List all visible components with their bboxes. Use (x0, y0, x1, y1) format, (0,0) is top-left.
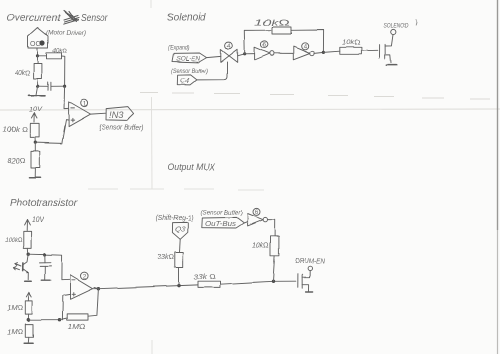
resistor 1M lower (7, 324, 33, 337)
circled 2 (81, 272, 89, 280)
svg-text:1MΩ: 1MΩ (68, 322, 86, 331)
tag IN3 output (106, 107, 134, 121)
wire C4 to gate control (197, 62, 227, 80)
svg-text:820Ω: 820Ω (7, 158, 26, 165)
wire Q3 to resistor (179, 239, 182, 252)
op-amp U2 (70, 275, 93, 299)
svg-text:Solenoid: Solenoid (167, 12, 207, 24)
wire R4 to ground (34, 168, 36, 178)
phototransistor (13, 254, 29, 279)
wire R3 to node (34, 137, 36, 142)
tag SOL-EN (172, 53, 207, 63)
wire node to inverter A (245, 53, 255, 55)
wire node down to R2 (37, 56, 39, 64)
inverter C (248, 214, 268, 226)
supply arrow 10V (25, 217, 46, 231)
ground (306, 291, 313, 293)
svg-text:(Motor Driver): (Motor Driver) (46, 30, 86, 37)
inverter A (255, 47, 274, 60)
svg-text:100k Ω: 100k Ω (3, 127, 28, 134)
wire long output bus (94, 285, 198, 289)
circled 6 (261, 41, 268, 49)
ground (30, 177, 41, 179)
resistor 10k gate (340, 40, 362, 55)
circled 4 (225, 42, 232, 50)
wire tag to inverter (244, 222, 248, 223)
node (27, 318, 30, 321)
wire node to R1 (38, 55, 47, 57)
tag OUT-BUS (202, 217, 244, 228)
resistor R4 820 (7, 151, 40, 168)
svg-text:10kΩ: 10kΩ (254, 18, 291, 28)
svg-text:(Sensor Buffer): (Sensor Buffer) (171, 68, 208, 75)
supply arrow 10V (29, 107, 43, 123)
tag OC input (28, 28, 48, 49)
node (271, 280, 274, 283)
svg-text:OC: OC (31, 41, 42, 48)
wire R2 to node (37, 79, 39, 87)
wire to U1 inverting input (64, 86, 69, 108)
node (322, 51, 325, 54)
svg-text:Sensor: Sensor (81, 12, 108, 24)
mosfet Q drum (298, 271, 310, 291)
wire junction to feedback resistor (60, 318, 68, 320)
svg-text:1MΩ: 1MΩ (7, 306, 24, 313)
wire tag to node (37, 48, 39, 56)
wire R to node (27, 248, 29, 254)
svg-text:40kΩ: 40kΩ (53, 48, 68, 55)
svg-text:10V: 10V (29, 107, 43, 114)
svg-text:100kΩ: 100kΩ (5, 237, 23, 244)
title Overcurrent Sensor (7, 11, 108, 24)
resistor 33k vertical (157, 252, 183, 268)
ground (24, 342, 32, 344)
svg-text:!N3: !N3 (109, 110, 124, 121)
op-amp U1 (69, 101, 91, 126)
wire R to mosfet gate (361, 49, 377, 51)
wire node to feedback junction (28, 319, 59, 321)
node (43, 253, 46, 256)
wire node to cap and opamp (28, 254, 70, 280)
circled 6 (253, 208, 260, 216)
svg-text:OuT-Bus: OuT-Bus (205, 221, 237, 228)
svg-text:SOL-EN: SOL-EN (176, 56, 200, 63)
svg-text:DRUM-EN: DRUM-EN (295, 259, 326, 266)
capacitor (40, 255, 52, 280)
node (27, 253, 30, 256)
wire resistor to bus node (273, 256, 275, 281)
svg-text:10kΩ: 10kΩ (342, 40, 360, 47)
resistor 10k vertical (252, 236, 279, 256)
svg-text:SOLENOID: SOLENOID (384, 24, 410, 30)
supply arrow resistor 1M (7, 292, 32, 314)
svg-text:(Sensor Buffer): (Sensor Buffer) (99, 125, 144, 132)
node (58, 318, 61, 321)
node (177, 284, 180, 287)
svg-text:1MΩ: 1MΩ (7, 329, 24, 336)
wire gate to node (238, 54, 245, 56)
wire U2 non-inverting input (62, 294, 70, 319)
tag C4 (177, 75, 197, 85)
stray pen mark (416, 20, 417, 26)
svg-text:(Sensor Buffer): (Sensor Buffer) (201, 210, 243, 217)
svg-text:33k Ω: 33k Ω (194, 274, 216, 281)
node (97, 287, 100, 290)
wire node to C1 (38, 85, 48, 87)
resistor 10k feedback (254, 18, 291, 35)
mosfet Q solenoid (380, 35, 394, 63)
wire U2 output (93, 288, 99, 290)
feedback wire left vertical (244, 30, 272, 54)
wire inverter A to inverter B (274, 52, 293, 54)
svg-text:Overcurrent: Overcurrent (7, 12, 61, 24)
wire R to node (27, 314, 29, 320)
wire SOL-EN to gate (207, 56, 221, 57)
node (36, 85, 39, 88)
svg-text:C4: C4 (180, 76, 190, 85)
capacitor C1 (48, 82, 51, 90)
transmission gate (221, 49, 238, 62)
wire node to R 10k (323, 51, 339, 52)
terminal circle DRUM-EN (308, 267, 312, 271)
wire inverter B to node (314, 52, 323, 53)
node (34, 141, 37, 144)
svg-text:Output MUX: Output MUX (168, 162, 217, 172)
svg-text:33kΩ: 33kΩ (157, 254, 174, 261)
resistor R2 40k vertical (15, 64, 42, 79)
inverter B (293, 47, 314, 60)
svg-text:10kΩ: 10kΩ (252, 241, 269, 250)
resistor 100k (5, 231, 32, 248)
wire inverter to resistor (268, 220, 275, 236)
wire C1 to vertical (51, 85, 65, 87)
terminal circle SOLENOID (391, 29, 396, 34)
node (243, 52, 246, 55)
wire resistor to bus node (178, 268, 180, 286)
circled 4 (301, 43, 308, 51)
ground (42, 279, 51, 281)
tag Q3 (172, 222, 187, 239)
wire node to R4 (34, 143, 36, 152)
svg-text:1: 1 (83, 100, 87, 107)
feedback wire right vertical (291, 30, 324, 52)
wire feedback to output (88, 289, 98, 317)
svg-text:(Shift-Reg-1): (Shift-Reg-1) (156, 215, 194, 222)
wire resistor to mosfet gate (220, 281, 296, 284)
resistor R3 100k (3, 123, 39, 137)
svg-text:2: 2 (83, 273, 87, 280)
wire U1 output (91, 112, 106, 115)
circled 1 (81, 99, 88, 107)
wire R to ground (27, 337, 30, 343)
ground (25, 280, 32, 282)
svg-text:(Expand): (Expand) (168, 45, 189, 52)
svg-text:Q3: Q3 (175, 225, 186, 234)
svg-text:10V: 10V (32, 217, 45, 224)
ground (386, 64, 396, 66)
wire U1 non-inverting input (35, 120, 68, 144)
resistor 1M feedback (67, 314, 88, 331)
svg-text:40kΩ: 40kΩ (15, 70, 31, 77)
wire R1 to cap junction (62, 56, 65, 86)
resistor 33k horizontal (194, 274, 221, 287)
ground (29, 95, 46, 97)
node (36, 54, 39, 57)
node (63, 85, 66, 88)
wire node down to ground (36, 86, 38, 95)
svg-text:Phototransistor: Phototransistor (10, 197, 77, 209)
resistor R1 40k horizontal (47, 48, 68, 59)
